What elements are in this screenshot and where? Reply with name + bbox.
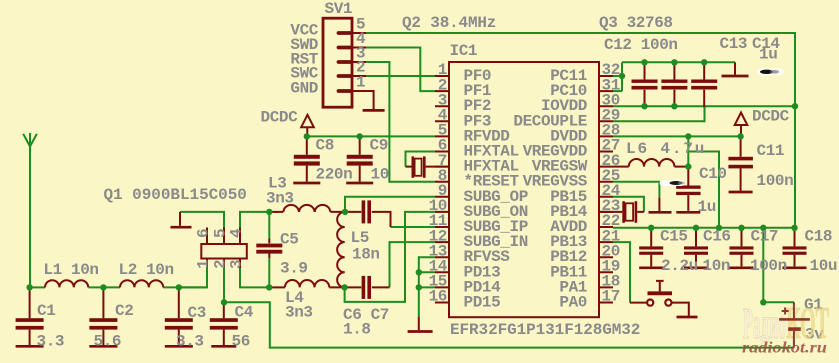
- svg-text:1: 1: [356, 74, 365, 92]
- svg-text:3n3: 3n3: [285, 304, 313, 322]
- svg-text:1u: 1u: [759, 46, 777, 64]
- svg-text:3.9: 3.9: [280, 260, 308, 278]
- svg-text:C5: C5: [280, 231, 298, 249]
- svg-text:EFR32FG1P131F128GM32: EFR32FG1P131F128GM32: [450, 321, 640, 339]
- svg-text:C16: C16: [703, 228, 731, 246]
- svg-text:1: 1: [195, 260, 213, 269]
- svg-text:DCDC: DCDC: [752, 108, 790, 126]
- svg-text:C17: C17: [751, 228, 779, 246]
- svg-text:3.3: 3.3: [37, 333, 65, 351]
- svg-text:L2 10n: L2 10n: [119, 261, 174, 279]
- svg-text:PD15: PD15: [464, 294, 501, 312]
- svg-text:C2: C2: [115, 302, 133, 320]
- svg-text:100n: 100n: [757, 172, 794, 190]
- svg-text:3n3: 3n3: [266, 190, 294, 208]
- svg-text:Q1 0900BL15C050: Q1 0900BL15C050: [104, 186, 247, 204]
- svg-text:5.6: 5.6: [94, 333, 122, 351]
- svg-text:C4: C4: [235, 304, 254, 322]
- svg-text:C3: C3: [188, 304, 206, 322]
- svg-text:C8: C8: [316, 137, 334, 155]
- svg-text:L6 4.7u: L6 4.7u: [626, 140, 704, 158]
- svg-text:10u: 10u: [810, 257, 838, 275]
- svg-text:L5: L5: [351, 229, 369, 247]
- svg-text:C15: C15: [660, 228, 688, 246]
- svg-text:10n: 10n: [703, 257, 731, 275]
- svg-text:C13: C13: [720, 35, 748, 53]
- svg-text:10: 10: [371, 166, 389, 184]
- svg-text:4: 4: [228, 228, 246, 238]
- svg-text:1.8: 1.8: [343, 321, 371, 339]
- svg-text:C1: C1: [37, 302, 55, 320]
- svg-text:3: 3: [228, 260, 246, 269]
- svg-text:18n: 18n: [352, 246, 380, 264]
- svg-text:IC1: IC1: [450, 42, 478, 60]
- svg-text:C11: C11: [757, 142, 785, 160]
- svg-text:1u: 1u: [698, 198, 716, 216]
- svg-text:220n: 220n: [316, 166, 353, 184]
- svg-text:C9: C9: [370, 137, 388, 155]
- svg-text:100n: 100n: [750, 257, 787, 275]
- svg-text:C10: C10: [699, 165, 727, 183]
- svg-text:17: 17: [602, 288, 620, 306]
- svg-text:3.3: 3.3: [176, 333, 204, 351]
- svg-text:6: 6: [195, 229, 213, 238]
- svg-text:2.2u: 2.2u: [661, 257, 698, 275]
- svg-text:radiokot.ru: radiokot.ru: [742, 340, 827, 357]
- svg-text:DCDC: DCDC: [261, 109, 299, 127]
- svg-text:C18: C18: [805, 228, 833, 246]
- svg-text:PA0: PA0: [559, 294, 587, 312]
- svg-text:L1 10n: L1 10n: [43, 261, 98, 279]
- svg-text:SV1: SV1: [325, 0, 353, 18]
- svg-text:Q3 32768: Q3 32768: [599, 14, 673, 32]
- svg-text:Q2 38.4MHz: Q2 38.4MHz: [402, 14, 496, 32]
- svg-text:16: 16: [429, 288, 447, 306]
- svg-text:56: 56: [232, 333, 250, 351]
- svg-text:C12 100n: C12 100n: [604, 36, 678, 54]
- svg-text:GND: GND: [290, 80, 318, 98]
